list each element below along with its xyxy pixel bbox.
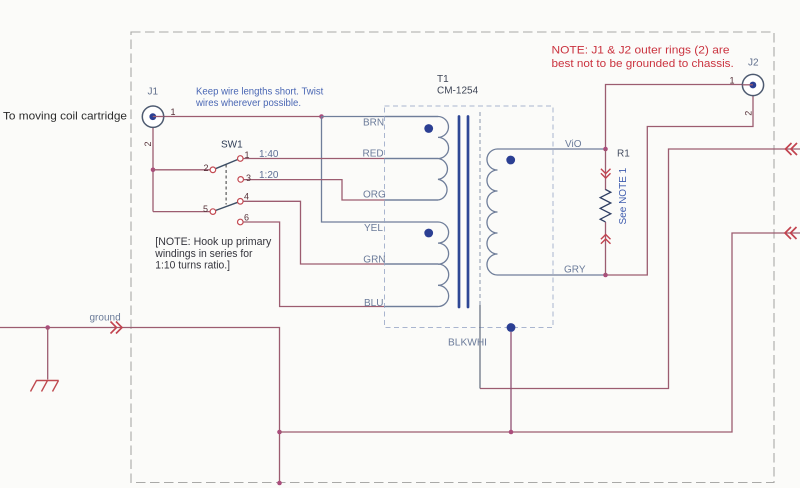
wire bottom ground bus to right edge arrow	[280, 233, 800, 432]
wire SW1 pin5 to J1 pin2	[153, 211, 210, 213]
polarity dot secondary	[506, 156, 515, 165]
wire BLKWHI to ground bus	[510, 332, 512, 432]
svg-text:SW1: SW1	[221, 140, 243, 151]
svg-text:1:40: 1:40	[259, 149, 279, 160]
transformer shield dashed	[479, 112, 481, 305]
svg-text:2: 2	[143, 141, 153, 146]
off-page arrow right bottom	[785, 227, 797, 239]
NOTE block dark	[154, 236, 271, 272]
node junction J1pin2-SW1pin2	[151, 168, 156, 173]
blade 2-1	[216, 160, 238, 169]
note text blue	[195, 87, 323, 109]
blade 5-4	[216, 202, 238, 210]
svg-text:CM-1254: CM-1254	[437, 85, 479, 96]
NOTE text red	[552, 44, 734, 70]
wire GRY to J2 pin2	[606, 96, 754, 275]
contact 4	[238, 199, 244, 205]
svg-text:2: 2	[743, 111, 753, 116]
connector J1	[142, 106, 163, 127]
svg-text:2: 2	[204, 163, 209, 173]
wire J1 pin2 vertical	[152, 127, 154, 211]
node junction BLKWHI bus	[509, 430, 514, 435]
BLKWHI terminal dot	[507, 323, 516, 332]
chassis dashed border	[131, 32, 774, 483]
svg-text:J1: J1	[148, 87, 159, 98]
svg-text:wires wherever possible.: wires wherever possible.	[195, 98, 301, 109]
node junction at border bottom	[277, 481, 282, 486]
wire ground stem	[47, 328, 49, 380]
svg-text:RED: RED	[363, 148, 384, 159]
wire SW1 pin4 to GRN	[243, 201, 384, 264]
polarity dot primary 1	[424, 124, 433, 133]
wire SW1 pin2 to J1 pin2	[153, 169, 210, 171]
transformer primary winding group 2	[385, 222, 449, 307]
svg-text:See NOTE 1: See NOTE 1	[618, 167, 629, 224]
wire ground bus left	[0, 328, 280, 484]
transformer secondary winding	[487, 149, 606, 275]
transformer primary winding group 1	[385, 117, 449, 201]
ground chassis symbol	[31, 381, 59, 392]
svg-text:BRN: BRN	[363, 118, 384, 129]
mechanical link dashed	[225, 165, 227, 205]
svg-text:R1: R1	[617, 148, 630, 159]
transformer T1 dashed box	[385, 106, 554, 328]
svg-text:Keep wire lengths short. Twis: Keep wire lengths short. Twist	[196, 87, 324, 98]
R1 break chevrons top	[601, 169, 611, 178]
polarity dot primary 2	[424, 229, 433, 238]
node junction ground symbol	[45, 325, 50, 330]
svg-text:6: 6	[244, 213, 249, 223]
svg-text:1:20: 1:20	[259, 170, 279, 181]
svg-text:3: 3	[246, 173, 251, 183]
pin labels SW1	[203, 150, 251, 223]
wire SW1 pin3 to ORG	[244, 180, 385, 200]
node junction VIO-R1	[603, 147, 608, 152]
contact 5	[210, 209, 216, 215]
wire J1 pin1 to junction	[156, 116, 322, 118]
contact 2	[210, 167, 216, 173]
wire shield net to right edge arrow	[480, 149, 800, 389]
svg-text:YEL: YEL	[364, 223, 383, 234]
contact 1	[238, 156, 244, 162]
wire GRN lead	[385, 263, 439, 265]
switch SW1	[210, 156, 243, 225]
svg-text:ORG: ORG	[363, 190, 386, 201]
svg-text:[NOTE: Hook up primary: [NOTE: Hook up primary	[155, 236, 271, 248]
svg-text:To moving coil cartridge: To moving coil cartridge	[3, 110, 127, 122]
svg-text:1: 1	[730, 75, 735, 85]
wire BLU lead	[385, 306, 439, 308]
svg-text:1:10 turns ratio.]: 1:10 turns ratio.]	[155, 260, 230, 272]
svg-text:4: 4	[244, 192, 249, 202]
svg-text:NOTE: J1 & J2 outer rings (2): NOTE: J1 & J2 outer rings (2) are	[552, 44, 730, 56]
wire ORG lead	[385, 199, 439, 201]
connector J2	[742, 74, 763, 95]
contact 3	[238, 177, 244, 183]
wire RED lead	[385, 158, 439, 160]
node junction ground bus corner	[277, 430, 282, 435]
wire YEL lead from junction	[322, 117, 385, 223]
svg-text:BLU: BLU	[364, 298, 383, 309]
node junction J1-BRN-YEL	[319, 114, 324, 119]
svg-text:1: 1	[245, 150, 250, 160]
svg-text:windings in series for: windings in series for	[154, 248, 252, 260]
svg-text:ViO: ViO	[565, 139, 582, 150]
resistor R1	[600, 149, 611, 275]
wire BRN lead	[322, 116, 439, 118]
contact 6	[238, 219, 244, 225]
winding labels	[363, 118, 586, 349]
wire VIO to J2 pin1	[606, 85, 743, 150]
svg-text:best not to be grounded to ch: best not to be grounded to chassis.	[552, 58, 734, 70]
svg-text:GRY: GRY	[564, 265, 586, 276]
node junction GRY-R1	[603, 273, 608, 278]
svg-text:1: 1	[171, 107, 176, 117]
svg-text:T1: T1	[437, 74, 449, 85]
off-page chevron ground	[111, 322, 123, 334]
transformer shield lead	[479, 305, 481, 389]
svg-text:GRN: GRN	[363, 254, 385, 265]
svg-text:5: 5	[203, 204, 208, 214]
svg-text:BLKWHI: BLKWHI	[448, 338, 487, 349]
transformer core	[459, 117, 468, 308]
wire SW1 pin1 to RED	[243, 158, 384, 160]
off-page arrow right top	[786, 143, 798, 155]
svg-text:J2: J2	[748, 58, 759, 69]
wire SW1 pin6 to BLU	[243, 222, 384, 307]
R1 break chevrons bottom	[601, 235, 611, 244]
